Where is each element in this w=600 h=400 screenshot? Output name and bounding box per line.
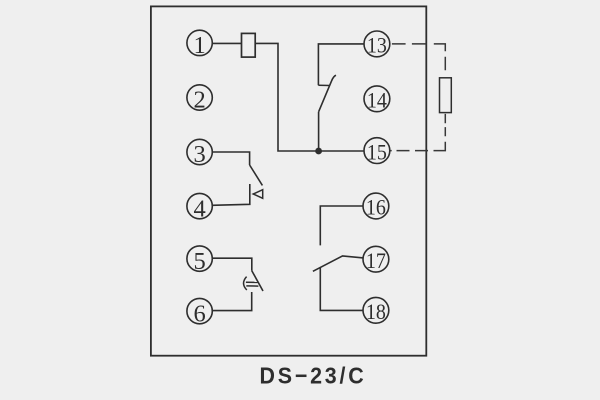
dashed wire terminal 13 to external resistor <box>392 44 445 70</box>
terminal 2 <box>187 85 212 114</box>
resistor (external, on dashed branch) <box>440 78 452 113</box>
terminal 6 <box>187 298 212 327</box>
contact blade (terminal 3-4 contact) <box>250 165 263 185</box>
svg-text:13: 13 <box>367 33 387 58</box>
svg-text:16: 16 <box>366 195 386 220</box>
svg-text:1: 1 <box>193 32 205 59</box>
svg-text:14: 14 <box>367 88 387 113</box>
terminal 3 <box>187 139 212 168</box>
wire coil to corner, down and across to terminal 15 <box>255 43 364 151</box>
svg-text:4: 4 <box>193 195 205 222</box>
terminal 13 <box>364 31 390 58</box>
contact blade (top middle contact, between 13 and 15) <box>319 75 336 112</box>
fixed post and wire to terminal 6 <box>212 292 252 311</box>
wire terminal 16 to contact post <box>320 206 363 245</box>
wire terminal1 to coil <box>212 42 241 44</box>
fixed post and wire to terminal 4 <box>212 184 250 205</box>
coil (rectangle on lead of terminal 1) <box>242 33 256 57</box>
wire terminal 17 and blade (16-17-18 contact) <box>313 256 364 271</box>
svg-text:5: 5 <box>193 248 205 275</box>
svg-text:18: 18 <box>366 299 386 324</box>
terminal 15 <box>364 138 390 165</box>
contact fixed tick (top middle contact) <box>318 84 329 86</box>
passing-contact bar 1 <box>246 281 258 283</box>
passing-contact bar 2 <box>246 285 258 287</box>
terminal 5 <box>187 246 212 275</box>
dashed wire resistor to terminal 15 <box>390 114 445 151</box>
contact blade (terminal 5-6 contact) <box>252 271 263 291</box>
terminal 4 <box>187 193 212 222</box>
terminal 1 <box>187 30 212 59</box>
terminal 17 <box>363 246 389 273</box>
wire terminal 5 to contact <box>212 258 252 271</box>
svg-text:2: 2 <box>193 87 205 114</box>
wire terminal 3 to contact <box>212 152 250 165</box>
terminal 18 <box>363 297 389 324</box>
delay triangle (terminal 3-4 contact) <box>253 190 263 199</box>
passing-contact arc (terminal 5-6 contact) <box>244 277 247 290</box>
svg-text:3: 3 <box>193 141 205 168</box>
wire terminal 13 to contact top <box>318 44 364 85</box>
wire blade to junction <box>318 112 320 151</box>
junction node at terminal 15 wire <box>315 148 322 155</box>
terminal 14 <box>364 86 390 113</box>
svg-text:17: 17 <box>366 248 386 273</box>
svg-text:DS−23/C: DS−23/C <box>260 363 367 389</box>
relay case outline <box>151 6 426 355</box>
terminal 16 <box>363 193 389 220</box>
wire terminal 18 to contact post <box>320 267 363 310</box>
svg-text:15: 15 <box>367 139 387 164</box>
svg-text:6: 6 <box>193 300 205 327</box>
